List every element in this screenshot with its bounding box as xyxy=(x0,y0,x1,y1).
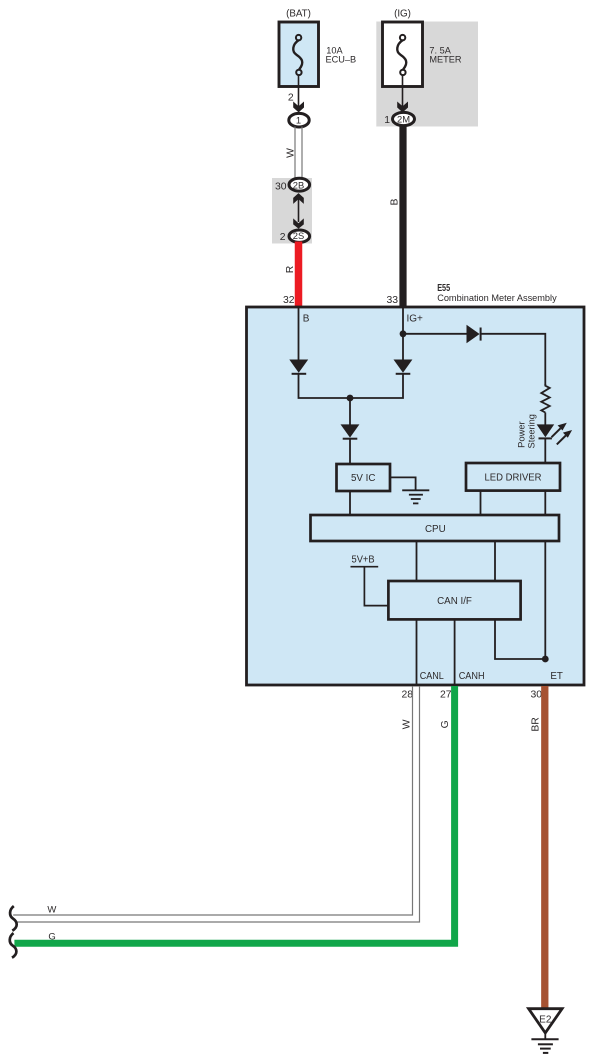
wire CPU to CAN I/F (right) xyxy=(494,541,496,581)
svg-text:Combination Meter Assembly: Combination Meter Assembly xyxy=(437,293,557,303)
signal ground xyxy=(402,490,429,503)
wire from 5V IC to ground xyxy=(390,477,416,489)
wire from D2 to junction node xyxy=(350,374,403,399)
wire with arrows between 2B and 2S xyxy=(293,193,304,229)
svg-text:CAN I/F: CAN I/F xyxy=(437,596,472,607)
fuse F2 7.5A METER xyxy=(383,22,423,87)
svg-text:2S: 2S xyxy=(293,230,304,241)
wire BR (brown) xyxy=(541,686,548,1009)
wire from LED to LED DRIVER xyxy=(544,438,546,463)
svg-text:IG+: IG+ xyxy=(407,313,424,324)
wire CAN I/F to ET junction xyxy=(495,619,545,659)
junction node on IG+ wire xyxy=(400,330,407,337)
wire from pin 33 down to diode D2 xyxy=(402,307,404,360)
svg-text:5V+B: 5V+B xyxy=(352,555,376,566)
connector 1 xyxy=(289,113,309,127)
wire G (green) xyxy=(14,686,454,943)
wire from fuse to connector 2M xyxy=(402,75,404,107)
continuation squiggle on G wire xyxy=(10,933,17,958)
diode D1 xyxy=(289,360,308,374)
svg-text:2B: 2B xyxy=(293,180,304,191)
svg-text:27: 27 xyxy=(440,690,452,701)
wire from D4 to resistor xyxy=(480,334,545,385)
arrowhead into connector 1 xyxy=(293,102,304,113)
svg-text:1: 1 xyxy=(296,114,301,125)
svg-text:W: W xyxy=(47,905,56,916)
svg-text:CANL: CANL xyxy=(420,671,445,682)
connector 2B xyxy=(289,178,310,191)
wire W below box (double line) xyxy=(13,686,419,922)
svg-text:Steering: Steering xyxy=(525,414,536,448)
wire B (black) xyxy=(399,126,406,308)
svg-text:W: W xyxy=(286,148,297,158)
E55 combination meter assembly box xyxy=(247,307,585,685)
svg-text:30: 30 xyxy=(275,182,287,193)
wire from pin 32 down to diode D1 xyxy=(298,307,300,360)
svg-text:1: 1 xyxy=(384,115,390,126)
resistor R1 xyxy=(541,384,549,413)
wire CPU to CAN I/F (left) xyxy=(416,541,418,581)
connector 2S xyxy=(289,230,310,242)
diode D4 xyxy=(467,325,481,344)
wire from junction to diode D3 xyxy=(349,398,351,425)
svg-text:CPU: CPU xyxy=(425,524,446,535)
wire from LED DRIVER to CPU (left) xyxy=(480,491,482,515)
value label 10A ECU-B xyxy=(326,45,357,64)
wire CAN I/F to pin 27 xyxy=(454,619,456,685)
wire CAN I/F to pin 28 xyxy=(416,619,418,685)
svg-text:W: W xyxy=(401,719,412,729)
svg-text:R: R xyxy=(285,265,296,273)
svg-text:2M: 2M xyxy=(397,114,410,125)
connector 2M xyxy=(393,112,415,125)
wire from D1 to junction node xyxy=(299,374,351,399)
wire through CPU from LED DRIVER to ET xyxy=(544,541,546,659)
svg-text:(BAT): (BAT) xyxy=(286,9,311,20)
wire W (white, double line) xyxy=(295,127,302,181)
wire from D3 to 5V IC xyxy=(349,439,351,465)
wire from resistor to LED xyxy=(544,413,546,426)
svg-text:ET: ET xyxy=(550,671,563,682)
arrowhead into connector 2M xyxy=(397,102,408,113)
CAN I/F box xyxy=(388,581,520,619)
svg-text:5V IC: 5V IC xyxy=(351,473,376,484)
svg-text:LED DRIVER: LED DRIVER xyxy=(485,473,542,484)
junction node ET xyxy=(542,656,549,663)
svg-text:2: 2 xyxy=(280,232,286,243)
svg-text:32: 32 xyxy=(283,295,295,306)
5V+B supply symbol and wire to CAN I/F xyxy=(351,567,389,606)
wire from fuse to connector 1 xyxy=(298,75,300,107)
svg-text:G: G xyxy=(48,931,55,942)
svg-text:B: B xyxy=(390,198,401,205)
svg-text:B: B xyxy=(303,313,310,324)
wire R (red) xyxy=(295,242,303,308)
svg-text:METER: METER xyxy=(429,54,462,64)
svg-text:28: 28 xyxy=(401,690,413,701)
CPU box xyxy=(311,515,560,541)
wire from 5V IC to CPU xyxy=(349,491,351,515)
svg-text:CANH: CANH xyxy=(459,671,485,682)
diode D3 xyxy=(341,424,360,438)
value label 7.5A METER xyxy=(429,45,462,64)
junction connector gray block xyxy=(272,178,312,244)
svg-text:E2: E2 xyxy=(539,1015,552,1026)
wire from LED DRIVER to CPU (right) xyxy=(544,491,546,515)
svg-text:30: 30 xyxy=(530,690,542,701)
junction node xyxy=(347,395,354,402)
ground E2 xyxy=(529,1009,563,1053)
svg-text:(IG): (IG) xyxy=(394,9,411,20)
svg-text:33: 33 xyxy=(386,295,398,306)
svg-text:BR: BR xyxy=(531,717,542,732)
continuation squiggle on W wire xyxy=(10,906,17,931)
fuse F1 10A ECU-B xyxy=(279,22,319,87)
svg-text:2: 2 xyxy=(288,93,294,104)
svg-text:G: G xyxy=(440,720,451,728)
wire from IG+ junction to diode D4 xyxy=(403,333,467,335)
5V IC box xyxy=(337,464,391,491)
diode D2 xyxy=(394,360,413,374)
svg-text:ECU–B: ECU–B xyxy=(326,54,357,64)
LED power steering indicator xyxy=(537,423,573,445)
label Power Steering xyxy=(516,414,537,448)
LED DRIVER box xyxy=(466,463,560,491)
gray block around IG fuse and 2M xyxy=(376,22,478,127)
